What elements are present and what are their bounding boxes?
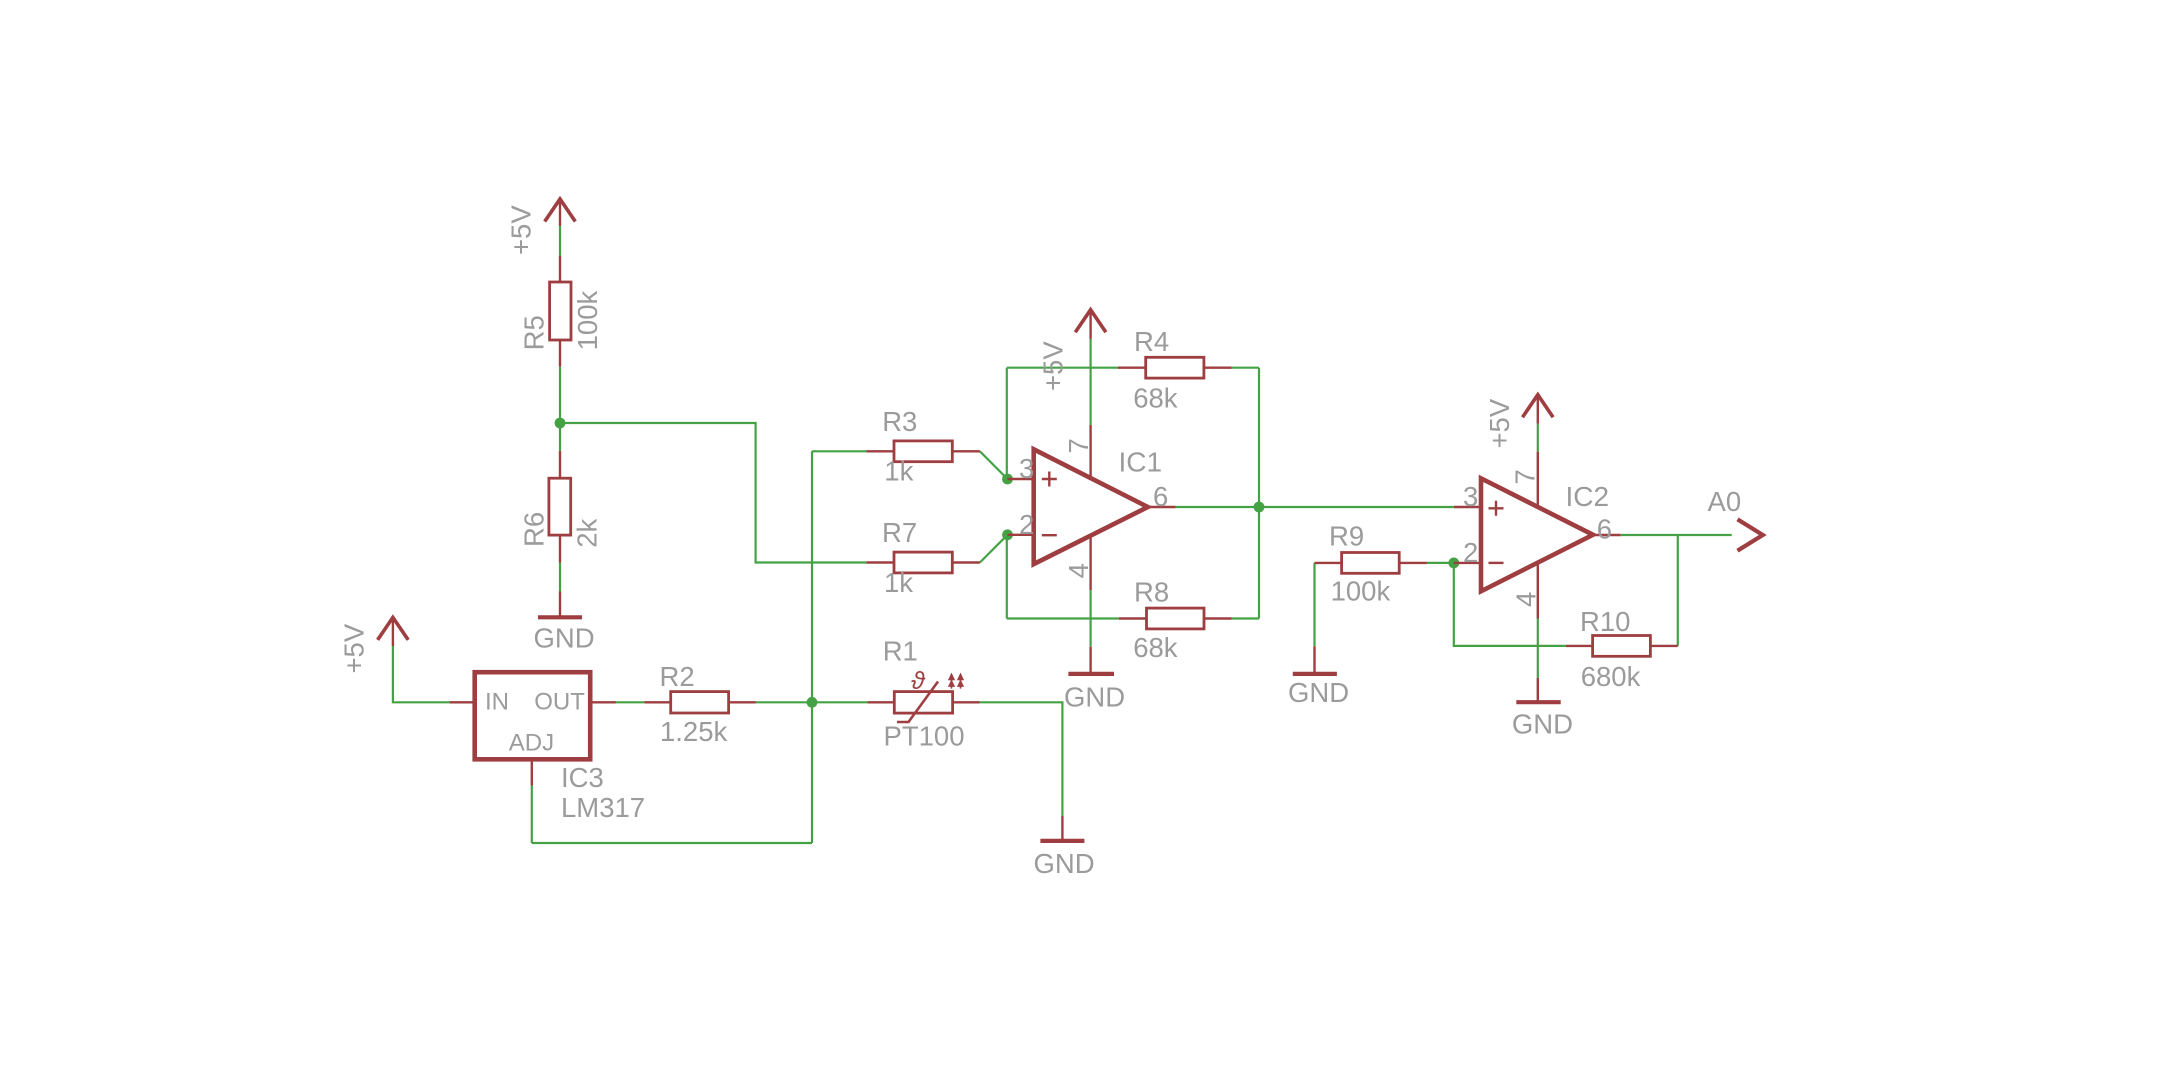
resistor R8 — [1147, 608, 1205, 629]
pin IC1 2 — [1008, 534, 1034, 536]
svg-text:+5V: +5V — [1484, 398, 1515, 448]
node IC2 pin2 junction — [1448, 558, 1459, 569]
pin R3 left — [866, 450, 894, 452]
wire R4 row right — [1232, 367, 1259, 369]
resistor R7 — [894, 552, 952, 573]
wire R4 row left — [1007, 367, 1118, 369]
wire node to R1 — [812, 701, 868, 703]
pin IC3 ADJ — [531, 759, 533, 785]
pin R7 right — [952, 561, 980, 563]
svg-text:7: 7 — [1063, 438, 1094, 453]
svg-text:1k: 1k — [884, 567, 913, 598]
wire ADJ pin gap — [531, 786, 533, 843]
pin IC2 6 — [1593, 534, 1621, 536]
wire fb col to pin3 — [1006, 368, 1008, 479]
wire IC2 out to A0 — [1621, 534, 1732, 536]
svg-text:R1: R1 — [883, 635, 918, 666]
svg-text:GND: GND — [1034, 848, 1095, 879]
svg-text:R5: R5 — [519, 315, 550, 350]
wire pin2 node to R10 row — [1454, 563, 1566, 646]
wire +5V to IC1 pin7 — [1089, 339, 1091, 425]
ground bar R1 — [1040, 839, 1084, 843]
wire node to IC2 pin3 — [1259, 506, 1454, 508]
svg-text:IN: IN — [485, 689, 509, 716]
stem +5V left — [392, 617, 394, 646]
pin R9 right — [1399, 562, 1427, 564]
svg-text:IC1: IC1 — [1119, 447, 1163, 478]
svg-text:ϑ: ϑ — [911, 667, 926, 695]
svg-text:R10: R10 — [1580, 606, 1630, 637]
wire IC1 pin4 gap — [1089, 590, 1091, 647]
wire +5V to R5 — [559, 226, 561, 256]
pin GND IC2 — [1537, 678, 1539, 702]
wire R3 to pin3 node — [980, 451, 1008, 479]
wire R9 to pin2 node — [1427, 562, 1454, 564]
resistor R1 — [894, 692, 952, 714]
minus mark IC2 — [1489, 562, 1504, 564]
svg-text:680k: 680k — [1581, 661, 1641, 692]
wire R8 row left — [1007, 617, 1119, 619]
regulator IC3 box — [475, 672, 591, 759]
svg-text:3: 3 — [1019, 453, 1034, 484]
pin IC2 2 — [1454, 562, 1481, 564]
arrow +5V left — [378, 617, 409, 640]
pin R5 bottom — [559, 340, 561, 367]
resistor R2 — [671, 692, 729, 713]
stem +5V IC2 — [1537, 395, 1539, 424]
resistor R5 — [550, 282, 571, 340]
svg-text:R3: R3 — [882, 406, 917, 437]
pin R9 left — [1315, 562, 1342, 564]
pin IC1 6 — [1148, 506, 1176, 508]
pin IC2 3 — [1454, 506, 1481, 508]
pin R10 right — [1650, 645, 1677, 647]
pin R6 bottom — [559, 535, 561, 562]
pin R3 right — [952, 450, 980, 452]
resistor R4 — [1146, 357, 1204, 378]
svg-text:1k: 1k — [884, 456, 913, 487]
op-amp U2 triangle — [1481, 478, 1593, 591]
svg-text:+5V: +5V — [1038, 341, 1069, 391]
svg-text:100k: 100k — [572, 291, 603, 351]
svg-text:IC2: IC2 — [1566, 481, 1610, 512]
wire node to R7 row — [560, 423, 866, 563]
svg-text:2: 2 — [1019, 509, 1034, 540]
svg-text:IC3: IC3 — [561, 762, 604, 793]
thermistor arrows — [948, 673, 964, 689]
pin R5 top — [559, 256, 561, 282]
svg-text:4: 4 — [1063, 563, 1094, 578]
svg-text:68k: 68k — [1133, 632, 1178, 663]
svg-text:R6: R6 — [519, 512, 550, 547]
wire R7 to pin2 node — [980, 535, 1008, 563]
arrow +5V R5 — [545, 199, 576, 222]
pin IC2 4 — [1537, 563, 1539, 619]
ground bar R9 — [1293, 672, 1337, 676]
svg-text:+5V: +5V — [506, 205, 537, 255]
svg-text:+5V: +5V — [339, 623, 370, 673]
stem +5V IC1 — [1089, 310, 1091, 339]
wire OUT to R2 — [616, 701, 644, 703]
pin R2 right — [729, 701, 756, 703]
resistor R6 — [549, 478, 571, 535]
node R2/R1/ADJ junction — [807, 697, 818, 708]
pin R1 left — [868, 701, 895, 703]
wire node to R6 — [559, 423, 561, 451]
wire IC2 +5V gap — [1537, 424, 1539, 452]
svg-text:GND: GND — [1064, 681, 1125, 712]
svg-text:6: 6 — [1153, 481, 1168, 512]
wire R1 node vertical — [811, 451, 813, 843]
svg-text:6: 6 — [1597, 514, 1612, 545]
arrow +5V IC1 — [1075, 310, 1106, 333]
pin GND IC1 — [1089, 647, 1091, 674]
pin R2 left — [644, 701, 670, 703]
plus mark IC1 — [1042, 472, 1057, 487]
pin IC1 7 — [1089, 425, 1091, 479]
node IC1 pin2 junction — [1002, 529, 1013, 540]
arrow A0 output — [1738, 519, 1763, 550]
svg-text:R7: R7 — [882, 517, 917, 548]
svg-text:R8: R8 — [1134, 577, 1169, 608]
pin R6 top — [559, 451, 561, 478]
node IC1 out junction — [1254, 502, 1265, 513]
wire ADJ bottom run — [532, 842, 812, 844]
pin IC3 OUT — [590, 701, 616, 703]
pin R4 right — [1204, 367, 1232, 369]
wire +5V to IN — [393, 646, 450, 702]
svg-text:PT100: PT100 — [884, 721, 965, 752]
pin R7 left — [866, 561, 894, 563]
svg-text:1.25k: 1.25k — [660, 716, 728, 747]
svg-text:R2: R2 — [660, 661, 695, 692]
resistor R3 — [894, 441, 952, 462]
wire R1 to GND — [980, 702, 1063, 815]
svg-text:A0: A0 — [1708, 486, 1742, 517]
wire R6 to GND pin — [559, 563, 561, 592]
wire R5 to node — [559, 367, 561, 423]
pin R4 left — [1118, 367, 1146, 369]
pin GND R1 — [1061, 816, 1063, 841]
wire R9 to GND — [1313, 563, 1315, 646]
ground bar IC1 — [1068, 672, 1114, 676]
pin GND R9 — [1313, 646, 1315, 674]
op-amp U1 triangle — [1034, 449, 1148, 564]
minus mark IC1 — [1042, 534, 1057, 536]
svg-text:2k: 2k — [572, 519, 603, 548]
resistor R9 — [1342, 553, 1400, 574]
svg-text:LM317: LM317 — [561, 792, 645, 823]
svg-text:68k: 68k — [1133, 383, 1178, 414]
arrow +5V IC2 — [1523, 395, 1554, 418]
svg-text:7: 7 — [1509, 469, 1540, 484]
svg-text:ADJ: ADJ — [509, 730, 554, 757]
wire R2 to node — [756, 701, 812, 703]
svg-text:GND: GND — [1512, 708, 1573, 739]
ground bar R6 — [538, 615, 582, 619]
pin R8 right — [1204, 617, 1232, 619]
node IC1 pin3 junction — [1002, 474, 1013, 485]
svg-text:OUT: OUT — [534, 689, 585, 716]
wire node to R3 — [812, 450, 866, 452]
svg-text:GND: GND — [534, 622, 595, 653]
plus mark IC2 — [1489, 501, 1504, 516]
thermistor strike R1 — [897, 682, 938, 723]
pin R1 right — [953, 701, 980, 703]
ground bar IC2 — [1516, 700, 1560, 704]
svg-text:2: 2 — [1463, 537, 1478, 568]
wire R8 row right — [1232, 617, 1259, 619]
svg-text:GND: GND — [1288, 677, 1349, 708]
pin IC2 7 — [1537, 452, 1539, 508]
pin GND R6 — [559, 592, 561, 618]
resistor R10 — [1593, 636, 1651, 657]
pin R10 left — [1566, 645, 1593, 647]
pin R8 left — [1119, 617, 1147, 619]
svg-text:4: 4 — [1511, 592, 1542, 607]
wire pin2 to R8 row — [1006, 535, 1008, 619]
pin IC3 IN — [450, 701, 475, 703]
svg-text:100k: 100k — [1331, 575, 1391, 606]
svg-text:R4: R4 — [1134, 326, 1169, 357]
wire IC1 out to node — [1176, 506, 1259, 508]
node R5/R6 junction — [555, 418, 566, 429]
wire R10 to out col — [1677, 535, 1679, 646]
pin IC1 4 — [1089, 535, 1091, 590]
wire fb right col — [1258, 368, 1260, 619]
svg-text:3: 3 — [1463, 481, 1478, 512]
stem +5V R5 — [559, 199, 561, 226]
pin IC1 3 — [1008, 478, 1034, 480]
svg-text:R9: R9 — [1329, 521, 1364, 552]
wire IC2 pin4 gap — [1537, 619, 1539, 678]
